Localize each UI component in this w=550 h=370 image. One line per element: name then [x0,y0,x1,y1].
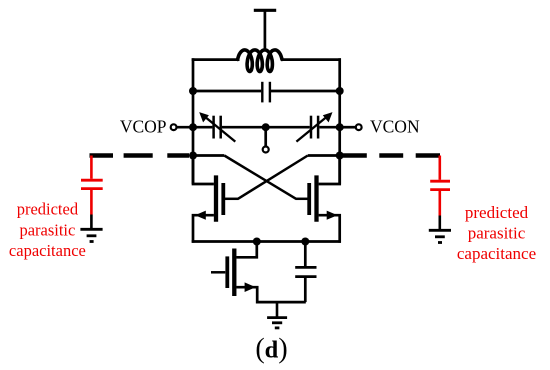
wire M2 drain [319,154,340,184]
arrow M1 source (NMOS) [195,211,206,220]
svg-text:predicted: predicted [465,203,529,222]
node dot right cap row [336,87,344,95]
svg-text:capacitance: capacitance [457,244,536,263]
wire top rail right [282,58,342,61]
wire VDD stem to inductor center tap [264,10,267,51]
wire right rail vertical [338,58,341,184]
wire M3 drain [236,242,256,258]
terminal Vtune (open circle) [263,147,269,153]
ground center [267,318,287,328]
wire gate M2 [296,198,308,201]
transistor M2 channel bar [314,175,318,221]
node dot center tune [262,123,270,131]
svg-text:capacitance: capacitance [9,241,86,260]
capacitor C1 (tank capacitor) [262,82,270,103]
wire red stem lower right [438,191,441,216]
wire M3 gate stub [211,271,225,274]
transistor M1 channel bar [214,175,218,221]
transistor M1 gate bar [221,183,225,215]
wire top rail left [192,58,240,61]
supply bar VDD [254,9,276,12]
wire M1 drain [193,154,214,184]
varactor CV1 plates [214,116,221,139]
varactor CV1 arrow [199,112,235,142]
varactor CV2 arrow [296,112,332,142]
wire tail cap stem upper [304,242,307,267]
capacitor C2 (tail filter) [295,267,316,276]
arrow M2 source (NMOS) [327,211,338,220]
wire red stem lower left [90,190,93,215]
wire cross-couple diagonal right-to-left [238,156,308,199]
wire black stem to ground left [90,215,93,230]
wire varactor row center [222,126,310,129]
varactor CV2 plates [311,116,318,139]
node dot left output [189,152,197,160]
wire M3 source [236,287,305,302]
svg-text:VCON: VCON [370,117,420,137]
label predicted parasitic capacitance left [9,200,86,261]
node dot tail cap [301,238,309,246]
wire red stem upper right [438,156,441,180]
wire varactor row left [193,126,212,129]
wire M1 source [193,215,214,243]
transistor M3 channel bar [232,249,236,297]
wire gate M1 [225,198,239,201]
node dot tail drain [253,238,261,246]
wire ground stem center [276,302,279,318]
wire node row left [193,154,224,157]
svg-text:parasitic: parasitic [468,223,526,242]
terminal VCON (open circle) [356,124,362,130]
node dot VCOP [189,123,197,131]
wire capacitor row right [271,90,340,93]
svg-text:VCOP: VCOP [120,117,167,137]
wire cross-couple diagonal left-to-right [224,156,296,199]
svg-text:(d): (d) [255,333,287,364]
ground left [80,229,102,241]
wire VCOP terminal to rail [177,126,193,129]
node dot right output [336,152,344,160]
wire tail line [192,240,341,243]
ground right [429,230,451,242]
transistor M3 gate bar [225,256,229,288]
dashed wire to left parasitic [90,153,190,157]
wire varactor row right [319,126,339,129]
arrow M3 source (NMOS) [245,282,256,292]
wire left rail vertical [192,58,195,184]
wire tune stem [264,127,267,146]
capacitor parasitic right (red) [430,181,450,189]
wire rail to VCON terminal [340,126,356,129]
wire tail cap stem lower [304,278,307,302]
wire capacitor row left [193,90,261,93]
svg-text:parasitic: parasitic [19,220,75,239]
wire M2 source [319,215,340,243]
inductor L1 (center-tapped coil) [238,50,282,72]
transistor M2 gate bar [307,183,311,215]
node dot VCON [336,123,344,131]
dashed wire to right parasitic [343,153,440,157]
node dot left cap row [189,87,197,95]
wire red stem upper left [90,156,93,179]
wire node row right [308,154,340,157]
wire black stem to ground right [438,216,441,231]
terminal VCOP (open circle) [171,124,177,130]
capacitor parasitic left (red) [81,180,103,188]
label predicted parasitic capacitance right [457,203,536,263]
svg-text:predicted: predicted [17,200,79,219]
